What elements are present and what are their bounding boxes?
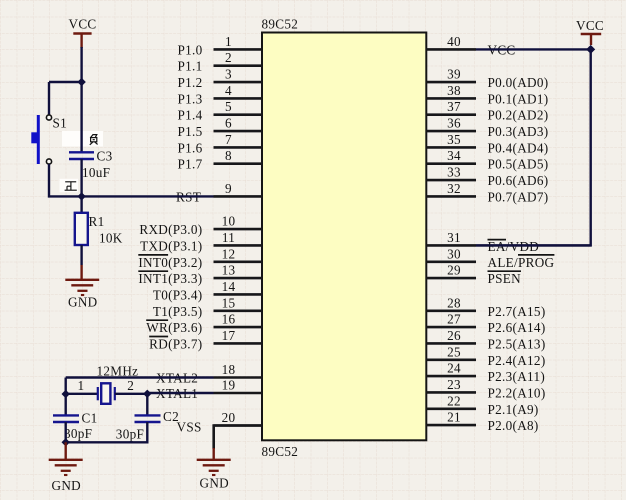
ground symbol under C1 (49, 460, 83, 475)
svg-text:8: 8 (225, 148, 232, 163)
junction node top of C3 (77, 78, 85, 86)
pin 30 stub (426, 260, 476, 263)
pin 31 stub (426, 244, 476, 247)
svg-text:S1: S1 (53, 115, 68, 130)
wire RST net from reset junction to pin 9 (82, 195, 214, 197)
svg-text:2: 2 (225, 50, 232, 65)
label zheng (positive) glyph (65, 182, 77, 190)
svg-text:P1.7: P1.7 (177, 157, 202, 172)
crystal Y1 body (101, 383, 110, 404)
svg-text:P1.6: P1.6 (177, 140, 202, 155)
pin 12 stub (214, 260, 263, 263)
svg-text:89C52: 89C52 (262, 444, 299, 459)
ground stem under pin 20 (212, 448, 214, 460)
svg-text:15: 15 (222, 295, 236, 310)
wire XTAL2 net pin18 (66, 376, 214, 378)
svg-text:P2.7(A15): P2.7(A15) (488, 304, 546, 319)
svg-text:23: 23 (447, 377, 461, 392)
svg-text:9: 9 (225, 181, 232, 196)
pin 22 stub (426, 407, 476, 410)
capacitor C1 top stem (64, 394, 66, 415)
pin 38 stub (426, 97, 476, 100)
svg-text:6: 6 (225, 116, 232, 131)
svg-text:P1.0: P1.0 (177, 42, 202, 57)
svg-text:P0.2(AD2): P0.2(AD2) (488, 108, 549, 123)
wire VCC net pin40 to VCC symbol (476, 48, 591, 50)
capacitor C2 top stem (146, 394, 148, 415)
svg-text:25: 25 (447, 344, 461, 359)
svg-text:39: 39 (447, 67, 461, 82)
junction node crystal pin1 (62, 390, 70, 398)
op IC U1 89C52 body (262, 33, 426, 441)
switch S1 bottom contact (46, 159, 51, 164)
pin 23 stub (426, 391, 476, 394)
svg-text:P2.4(A12): P2.4(A12) (488, 353, 546, 368)
ground symbol under pin 20 (197, 460, 231, 475)
switch S1 actuator knob (31, 132, 37, 143)
pin 13 stub (214, 277, 263, 280)
pin 8 stub (214, 162, 263, 165)
svg-text:89C52: 89C52 (262, 17, 299, 32)
resistor R1 top stem (80, 196, 82, 213)
svg-text:C2: C2 (163, 409, 179, 424)
svg-text:7: 7 (225, 132, 232, 147)
svg-text:30: 30 (447, 246, 461, 261)
pin 11 stub (214, 244, 263, 247)
capacitor C3 top stem (80, 82, 82, 152)
svg-text:GND: GND (68, 295, 97, 310)
svg-text:INT0(P3.2): INT0(P3.2) (138, 255, 202, 270)
pin 7 stub (214, 146, 263, 149)
svg-text:30pF: 30pF (64, 426, 92, 441)
overline EA (488, 239, 507, 241)
svg-text:37: 37 (447, 99, 461, 114)
resistor R1 bottom stem (80, 245, 82, 265)
pin 36 stub (426, 130, 476, 133)
svg-text:P1.2: P1.2 (177, 75, 202, 90)
svg-text:3: 3 (225, 67, 232, 82)
svg-text:P1.4: P1.4 (177, 108, 202, 123)
white patch behind zheng label (60, 179, 79, 192)
capacitor C1 bottom stem (64, 422, 66, 442)
svg-text:P1.1: P1.1 (177, 59, 202, 74)
svg-text:20: 20 (222, 410, 236, 425)
svg-text:INT1(P3.3): INT1(P3.3) (138, 271, 202, 286)
pin 25 stub (426, 358, 476, 361)
svg-text:21: 21 (447, 410, 461, 425)
pin 40 stub (426, 48, 476, 51)
overline for ALE/PROG (518, 254, 554, 256)
pin 1 stub (214, 48, 263, 51)
svg-text:34: 34 (447, 148, 461, 163)
svg-text:27: 27 (447, 312, 461, 327)
svg-text:C1: C1 (82, 411, 98, 426)
svg-text:13: 13 (222, 263, 236, 278)
pin 34 stub (426, 162, 476, 165)
pin 26 stub (426, 342, 476, 345)
svg-text:GND: GND (200, 476, 229, 491)
svg-text:5: 5 (225, 99, 232, 114)
svg-text:4: 4 (225, 83, 232, 98)
svg-text:35: 35 (447, 132, 461, 147)
capacitor C2 plates (135, 414, 161, 416)
svg-text:P0.6(AD6): P0.6(AD6) (488, 173, 549, 188)
svg-text:P1.5: P1.5 (177, 124, 202, 139)
svg-text:R1: R1 (89, 214, 105, 229)
wire top junction to switch branch (49, 81, 82, 83)
pin 27 stub (426, 326, 476, 329)
svg-text:P2.2(A10): P2.2(A10) (488, 385, 546, 400)
svg-text:VCC: VCC (576, 18, 604, 33)
svg-text:P2.6(A14): P2.6(A14) (488, 320, 546, 335)
pin 20 stub (214, 424, 263, 427)
svg-text:10K: 10K (99, 231, 123, 246)
pin 24 stub (426, 375, 476, 378)
svg-text:P0.1(AD1): P0.1(AD1) (488, 91, 549, 106)
capacitor C1 plates (53, 414, 79, 416)
svg-text:31: 31 (447, 230, 461, 245)
pin 19 stub (214, 392, 263, 395)
pin 33 stub (426, 179, 476, 182)
wire VCC vertical down to EA pin (476, 49, 591, 245)
overline for RD(P3.7) (149, 336, 168, 338)
pin 35 stub (426, 146, 476, 149)
svg-text:14: 14 (222, 279, 236, 294)
wire XTAL2 left vertical (64, 378, 66, 395)
svg-text:19: 19 (222, 378, 236, 393)
svg-text:18: 18 (222, 362, 236, 377)
pin 21 stub (426, 424, 476, 427)
pin 15 stub (214, 309, 263, 312)
svg-text:36: 36 (447, 116, 461, 131)
svg-text:12MHz: 12MHz (97, 364, 139, 379)
overline for WR(P3.6) (146, 319, 168, 321)
pin 28 stub (426, 309, 476, 312)
svg-text:P2.3(A11): P2.3(A11) (488, 369, 546, 384)
pin 16 stub (214, 326, 263, 329)
pin 2 stub (214, 64, 263, 67)
svg-text:16: 16 (222, 312, 236, 327)
svg-text:T0(P3.4): T0(P3.4) (153, 287, 203, 302)
svg-text:P0.7(AD7): P0.7(AD7) (488, 189, 549, 204)
overline for INT1(P3.3) (138, 270, 168, 272)
pin 4 stub (214, 97, 263, 100)
svg-text:P0.5(AD5): P0.5(AD5) (488, 157, 549, 172)
svg-text:PSEN: PSEN (488, 271, 522, 286)
crystal Y1 right plate (114, 387, 116, 400)
svg-text:40: 40 (447, 34, 461, 49)
svg-text:38: 38 (447, 83, 461, 98)
svg-text:TXD(P3.1): TXD(P3.1) (140, 238, 202, 253)
svg-text:12: 12 (222, 246, 236, 261)
svg-text:P0.0(AD0): P0.0(AD0) (488, 75, 549, 90)
svg-text:P2.1(A9): P2.1(A9) (488, 402, 539, 417)
junction node C1 bottom (62, 438, 70, 446)
wire C2 bottom to C1 bottom (66, 422, 148, 442)
crystal Y1 left plate (97, 387, 99, 400)
power VCC symbol right (581, 33, 602, 35)
svg-text:P2.0(A8): P2.0(A8) (488, 418, 539, 433)
svg-text:T1(P3.5): T1(P3.5) (153, 304, 203, 319)
svg-text:33: 33 (447, 165, 461, 180)
svg-text:1: 1 (225, 34, 232, 49)
ground symbol under R1 (65, 280, 99, 295)
white patch behind fu label (62, 131, 103, 147)
pin 3 stub (214, 81, 263, 84)
wire VCC stem down to junction (80, 47, 82, 82)
wire XTAL1 net from crystal to pin19 (147, 392, 213, 394)
wire junction to crystal pin1 (66, 393, 98, 395)
pin 6 stub (214, 130, 263, 133)
overline for INT0(P3.2) (138, 254, 168, 256)
svg-text:30pF: 30pF (116, 427, 144, 442)
resistor R1 body (75, 213, 88, 245)
svg-text:26: 26 (447, 328, 461, 343)
overline for PSEN (488, 270, 522, 272)
svg-text:2: 2 (127, 378, 134, 393)
svg-text:28: 28 (447, 295, 461, 310)
pin 17 stub (214, 342, 263, 345)
junction at VCC right (586, 45, 595, 54)
svg-text:VSS: VSS (177, 420, 202, 435)
svg-text:WR(P3.6): WR(P3.6) (146, 320, 202, 335)
pin 29 stub (426, 277, 476, 280)
switch S1 top contact (46, 115, 51, 120)
svg-text:P0.3(AD3): P0.3(AD3) (488, 124, 549, 139)
pin 5 stub (214, 113, 263, 116)
ground stem under C1 (64, 442, 66, 459)
wire VSS pin20 down corner (214, 426, 262, 450)
svg-text:22: 22 (447, 393, 461, 408)
pin 10 stub (214, 228, 263, 231)
svg-text:P1.3: P1.3 (177, 91, 202, 106)
svg-text:ALE/PROG: ALE/PROG (488, 255, 555, 270)
svg-text:11: 11 (222, 230, 235, 245)
svg-text:RXD(P3.0): RXD(P3.0) (139, 222, 202, 237)
capacitor C3 plates (69, 151, 94, 153)
svg-text:10uF: 10uF (82, 165, 110, 180)
svg-text:24: 24 (447, 361, 461, 376)
svg-text:P0.4(AD4): P0.4(AD4) (488, 140, 549, 155)
svg-text:1: 1 (78, 378, 85, 393)
svg-text:C3: C3 (97, 149, 113, 164)
svg-text:GND: GND (52, 478, 81, 493)
pin 37 stub (426, 113, 476, 116)
capacitor C3 bottom stem (80, 159, 82, 196)
pin 14 stub (214, 293, 263, 296)
wire EA strike re-stroke (476, 244, 591, 246)
svg-text:32: 32 (447, 181, 461, 196)
label fu (negative) glyph (90, 134, 98, 145)
pin 18 stub (214, 376, 263, 379)
wire switch top lead (48, 82, 50, 115)
power VCC symbol left (73, 32, 91, 34)
svg-text:29: 29 (447, 263, 461, 278)
svg-text:10: 10 (222, 214, 236, 229)
pin 32 stub (426, 195, 476, 198)
svg-text:17: 17 (222, 328, 236, 343)
svg-text:VCC: VCC (69, 17, 97, 32)
junction node bottom of C3 (77, 192, 85, 200)
svg-text:RD(P3.7): RD(P3.7) (149, 336, 202, 351)
ground stem under R1 (80, 265, 82, 280)
wire switch bottom lead (49, 164, 82, 196)
wire crystal pin2 to junction (115, 393, 148, 395)
pin 9 stub (214, 195, 263, 198)
switch S1 actuator bar (37, 115, 40, 164)
junction node crystal pin2 (143, 390, 151, 398)
svg-text:P2.5(A13): P2.5(A13) (488, 336, 546, 351)
pin 39 stub (426, 81, 476, 84)
